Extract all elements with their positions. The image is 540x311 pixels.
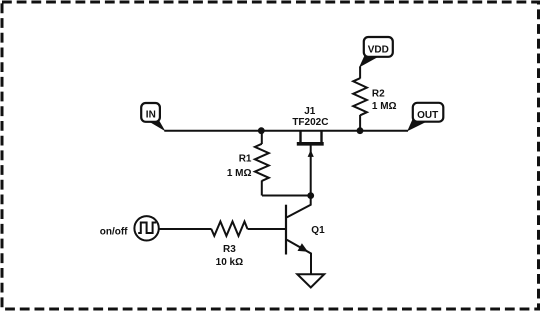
svg-text:1 MΩ: 1 MΩ bbox=[372, 101, 397, 112]
svg-text:R1: R1 bbox=[239, 153, 252, 164]
svg-text:on/off: on/off bbox=[100, 227, 128, 238]
wire: VDD lead to R2 bbox=[359, 67, 361, 79]
resistor R2 bbox=[353, 78, 367, 115]
wire: R2 to OUT net bbox=[359, 115, 361, 131]
svg-text:1 MΩ: 1 MΩ bbox=[227, 168, 252, 179]
wire: R1 bottom to gate node bbox=[262, 195, 311, 197]
svg-text:TF202C: TF202C bbox=[292, 117, 328, 128]
svg-text:10 kΩ: 10 kΩ bbox=[216, 257, 243, 268]
node: gate/R1/collector junction bbox=[307, 192, 314, 199]
ground bbox=[297, 274, 324, 287]
svg-text:OUT: OUT bbox=[417, 110, 438, 121]
svg-text:IN: IN bbox=[146, 110, 156, 121]
svg-text:VDD: VDD bbox=[368, 45, 389, 56]
wire: IN net horizontal bbox=[164, 130, 408, 132]
wire: source to R3 bbox=[159, 228, 212, 230]
JFET J1 bbox=[297, 131, 324, 196]
node: R2/OUT junction bbox=[357, 127, 364, 134]
source on/off pulse generator bbox=[134, 216, 158, 240]
node: IN/R1 junction bbox=[258, 127, 265, 134]
wire: R3 to Q1 base bbox=[248, 228, 287, 230]
svg-text:J1: J1 bbox=[304, 106, 316, 117]
resistor R1 bbox=[255, 131, 269, 196]
svg-text:Q1: Q1 bbox=[311, 225, 325, 236]
transistor Q1 bbox=[286, 196, 311, 275]
terminal OUT bbox=[407, 103, 443, 132]
svg-text:R3: R3 bbox=[223, 244, 236, 255]
terminal VDD bbox=[359, 37, 393, 68]
resistor R3 bbox=[211, 222, 247, 236]
terminal IN bbox=[141, 103, 165, 131]
svg-text:R2: R2 bbox=[372, 88, 385, 99]
